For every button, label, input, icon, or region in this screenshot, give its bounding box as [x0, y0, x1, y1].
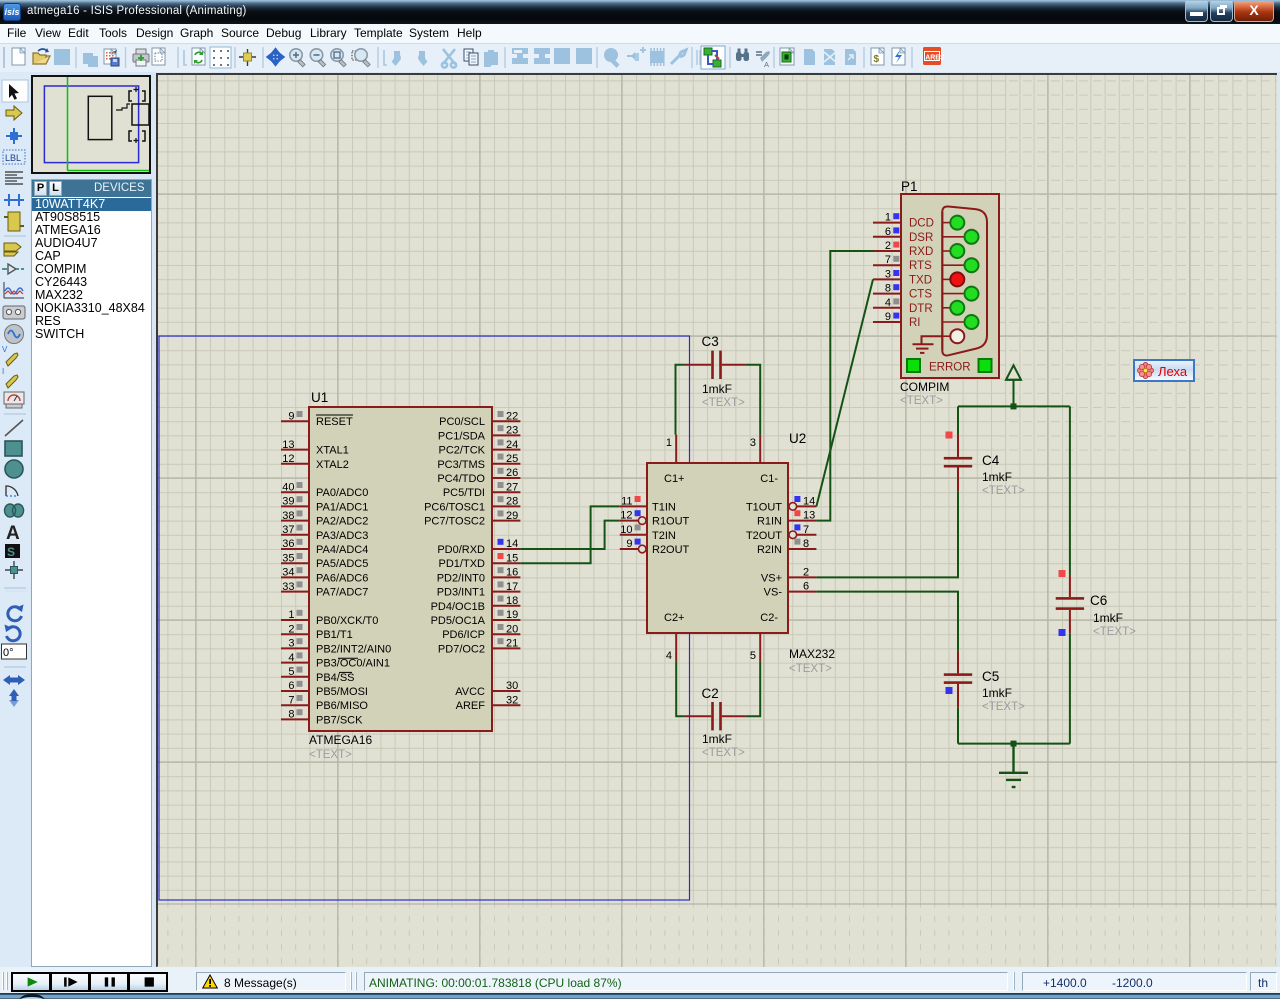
svg-text:PA3/ADC3: PA3/ADC3: [316, 530, 368, 542]
svg-text:7: 7: [288, 694, 294, 706]
capacitor C4: [944, 432, 1025, 498]
wire U1 PD1/TXD to U2 T1IN: [520, 506, 619, 563]
svg-text:RESET: RESET: [316, 416, 353, 428]
pin 13 XTAL1: [281, 449, 309, 451]
svg-text:PD1/TXD: PD1/TXD: [439, 558, 486, 570]
pin 39 PA1/ADC1: [281, 505, 309, 507]
svg-text:13: 13: [803, 510, 815, 522]
svg-text:VS+: VS+: [761, 572, 782, 584]
top rail wire: [958, 405, 1070, 407]
svg-text:25: 25: [506, 453, 518, 465]
svg-text:AREF: AREF: [456, 700, 486, 712]
svg-text:5: 5: [750, 650, 756, 662]
svg-text:7: 7: [885, 254, 891, 266]
wire P1 TXD to U2 T1OUT (diagonal): [816, 279, 873, 506]
svg-text:8: 8: [288, 709, 294, 721]
D-sub connector shape: [942, 206, 987, 355]
svg-text:23: 23: [506, 425, 518, 437]
svg-text:PC5/TDI: PC5/TDI: [443, 487, 485, 499]
svg-text:20: 20: [506, 623, 518, 635]
svg-text:A: A: [764, 60, 769, 69]
svg-text:6: 6: [885, 226, 891, 238]
svg-text:38: 38: [282, 510, 294, 522]
svg-text:TXD: TXD: [909, 274, 932, 286]
LED: [942, 222, 950, 224]
svg-text:8: 8: [885, 283, 891, 295]
LED: [942, 264, 964, 266]
pin 30 AVCC: [492, 690, 520, 692]
wire C5 to bottom rail: [957, 708, 959, 744]
svg-text:10: 10: [620, 524, 632, 536]
wire C2 to U2 pin4: [676, 661, 684, 716]
pin 12 R1OUT: [620, 520, 639, 522]
svg-text:T1IN: T1IN: [652, 501, 676, 513]
toolbar background: [0, 43, 1280, 72]
pin 12 XTAL2: [281, 463, 309, 465]
wire C3 to U2 pin3: [746, 365, 761, 435]
svg-text:PB6/MISO: PB6/MISO: [316, 700, 368, 712]
junction top rail: [1011, 403, 1017, 409]
pin 1 DCD: [873, 222, 901, 224]
title bar: [0, 0, 1280, 24]
pin 4 PB3/OC0/AIN1: [281, 662, 309, 664]
svg-text:PA5/ADC5: PA5/ADC5: [316, 558, 368, 570]
svg-text:7: 7: [803, 524, 809, 536]
pin 1 C1+: [675, 435, 677, 463]
svg-text:PD4/OC1B: PD4/OC1B: [431, 601, 485, 613]
svg-text:C5: C5: [982, 669, 999, 684]
svg-text:9: 9: [885, 311, 891, 323]
pin 9 RI: [873, 321, 901, 323]
pin 9 R2OUT: [620, 548, 639, 550]
LED: [942, 307, 950, 309]
playback button: [128, 972, 168, 992]
internal ground: [913, 336, 943, 353]
svg-text:PD6/ICP: PD6/ICP: [442, 629, 485, 641]
overview minimap: [31, 75, 151, 174]
svg-text:3: 3: [288, 638, 294, 650]
sheet border: [159, 336, 690, 900]
menu bar: [0, 24, 1280, 43]
svg-text:V: V: [2, 345, 8, 354]
pin 36 PA4/ADC4: [281, 548, 309, 550]
svg-text:C4: C4: [982, 453, 1000, 468]
playback button: [89, 972, 129, 992]
svg-text:1: 1: [885, 212, 891, 224]
svg-text:T2OUT: T2OUT: [746, 530, 782, 542]
pin 13 R1IN: [788, 520, 816, 522]
pin 15 PD1/TXD: [492, 562, 520, 564]
svg-text:1mkF: 1mkF: [982, 686, 1012, 700]
pin 37 PA3/ADC3: [281, 534, 309, 536]
svg-text:PD3/INT1: PD3/INT1: [437, 587, 485, 599]
svg-text:PB2/INT2/AIN0: PB2/INT2/AIN0: [316, 643, 391, 655]
pin 29 PC7/TOSC2: [492, 520, 520, 522]
pin 14 T1OUT: [796, 505, 816, 507]
svg-text:1: 1: [288, 609, 294, 621]
svg-text:18: 18: [506, 595, 518, 607]
svg-text:PA2/ADC2: PA2/ADC2: [316, 516, 368, 528]
junction bottom rail: [1011, 741, 1017, 747]
svg-text:DSR: DSR: [909, 232, 933, 244]
svg-text:ERROR: ERROR: [929, 362, 971, 374]
svg-text:26: 26: [506, 467, 518, 479]
ERROR indicator: [907, 359, 920, 372]
coordinates panel: [1022, 972, 1247, 991]
pin 23 PC1/SDA: [492, 434, 520, 436]
pin 33 PA7/ADC7: [281, 591, 309, 593]
LED: [942, 236, 964, 238]
svg-text:1mkF: 1mkF: [702, 382, 732, 396]
svg-text:PD5/OC1A: PD5/OC1A: [431, 615, 486, 627]
message panel: [196, 972, 346, 991]
svg-text:14: 14: [506, 538, 518, 550]
svg-text:PC6/TOSC1: PC6/TOSC1: [424, 501, 485, 513]
LED: [942, 321, 964, 323]
playback button: [11, 972, 51, 992]
devices panel: [31, 179, 152, 967]
svg-text:CTS: CTS: [909, 289, 932, 301]
svg-text:22: 22: [506, 410, 518, 422]
svg-text:28: 28: [506, 496, 518, 508]
svg-text:2: 2: [803, 566, 809, 578]
svg-text:0°: 0°: [3, 647, 14, 659]
svg-text:<TEXT>: <TEXT>: [789, 663, 832, 675]
left tool palette: [0, 72, 30, 967]
pin 2 PB1/T1: [281, 633, 309, 635]
wire U1 PD0/RXD to U2 R1OUT: [520, 521, 619, 549]
connector P1 COMPIM: [873, 179, 999, 407]
svg-text:C1+: C1+: [664, 473, 685, 485]
svg-text:I: I: [2, 367, 4, 376]
svg-text:S: S: [7, 545, 15, 559]
svg-text:C2: C2: [702, 686, 719, 701]
LED: [942, 335, 950, 337]
svg-text:34: 34: [282, 567, 294, 579]
svg-text:5: 5: [288, 666, 294, 678]
pin 14 PD0/RXD: [492, 548, 520, 550]
svg-text:RTS: RTS: [909, 260, 932, 272]
svg-text:PD2/INT0: PD2/INT0: [437, 572, 485, 584]
pin 8 R2IN: [788, 548, 816, 550]
ground terminal: [999, 744, 1028, 787]
pin 28 PC6/TOSC1: [492, 505, 520, 507]
pin 7 RTS: [873, 264, 901, 266]
svg-text:AVCC: AVCC: [455, 686, 485, 698]
bottom rail wire: [958, 743, 1070, 745]
pin 25 PC3/TMS: [492, 463, 520, 465]
svg-text:24: 24: [506, 439, 518, 451]
svg-text:PD7/OC2: PD7/OC2: [438, 643, 485, 655]
wire right riser through C6: [1069, 406, 1071, 743]
svg-text:T2IN: T2IN: [652, 530, 676, 542]
svg-text:P1: P1: [901, 179, 918, 194]
svg-text:$: $: [874, 54, 880, 65]
svg-text:C3: C3: [702, 334, 719, 349]
svg-text:12: 12: [620, 510, 632, 522]
LED: [942, 278, 950, 280]
svg-text:<TEXT>: <TEXT>: [900, 395, 943, 407]
pin 4 DTR: [873, 307, 901, 309]
wire U2 VS+ to C4: [816, 491, 958, 577]
pin 20 PD6/ICP: [492, 633, 520, 635]
svg-text:1mkF: 1mkF: [702, 732, 732, 746]
svg-text:3: 3: [885, 268, 891, 280]
pin 3 PB2/INT2/AIN0: [281, 647, 309, 649]
svg-text:<TEXT>: <TEXT>: [702, 747, 745, 759]
bottom window edge: [0, 993, 1280, 999]
status bar: [0, 967, 1280, 993]
svg-text:PC7/TOSC2: PC7/TOSC2: [424, 516, 485, 528]
svg-text:9: 9: [288, 410, 294, 422]
svg-text:<TEXT>: <TEXT>: [702, 397, 745, 409]
capacitor C5: [944, 651, 1025, 713]
svg-text:C1-: C1-: [760, 473, 778, 485]
svg-text:RXD: RXD: [909, 246, 933, 258]
svg-text:<TEXT>: <TEXT>: [982, 485, 1025, 497]
pin 35 PA5/ADC5: [281, 562, 309, 564]
svg-text:6: 6: [288, 680, 294, 692]
wire C2 to U2 pin5: [746, 661, 761, 716]
svg-text:ARES: ARES: [925, 55, 945, 62]
svg-text:40: 40: [282, 481, 294, 493]
svg-text:3: 3: [750, 437, 756, 449]
svg-text:<TEXT>: <TEXT>: [1093, 626, 1136, 638]
LED: [942, 250, 950, 252]
pin 6 VS-: [788, 591, 816, 593]
wire U2 VS- to C5: [816, 592, 958, 651]
capacitor C3: [685, 334, 746, 409]
svg-text:<TEXT>: <TEXT>: [309, 749, 352, 761]
svg-text:R1IN: R1IN: [757, 516, 782, 528]
pin 5 C2-: [759, 633, 761, 661]
pin 27 PC5/TDI: [492, 491, 520, 493]
user tag: [1133, 359, 1195, 382]
svg-text:XTAL2: XTAL2: [316, 459, 349, 471]
svg-text:4: 4: [666, 650, 672, 662]
svg-text:13: 13: [282, 439, 294, 451]
wire C3 to U2 pin1: [676, 365, 685, 435]
wire P1 RXD to U2 R1IN: [816, 251, 873, 521]
svg-text:8: 8: [803, 538, 809, 550]
svg-text:PC3/TMS: PC3/TMS: [437, 459, 485, 471]
svg-text:PB7/SCK: PB7/SCK: [316, 714, 363, 726]
capacitor C6: [1056, 570, 1136, 638]
svg-text:27: 27: [506, 481, 518, 493]
svg-text:XTAL1: XTAL1: [316, 445, 349, 457]
svg-text:R1OUT: R1OUT: [652, 516, 690, 528]
svg-text:9: 9: [626, 538, 632, 550]
svg-text:36: 36: [282, 538, 294, 550]
pin 24 PC2/TCK: [492, 449, 520, 451]
pin 6 PB5/MOSI: [281, 690, 309, 692]
svg-text:1mkF: 1mkF: [1093, 611, 1123, 625]
animating panel: [364, 972, 1008, 991]
svg-text:PA4/ADC4: PA4/ADC4: [316, 544, 368, 556]
svg-text:PB1/T1: PB1/T1: [316, 629, 353, 641]
svg-text:16: 16: [506, 567, 518, 579]
svg-text:U2: U2: [789, 431, 806, 446]
svg-text:15: 15: [506, 552, 518, 564]
pin 11 T1IN: [620, 505, 647, 507]
pin 8 PB7/SCK: [281, 718, 309, 720]
svg-text:1: 1: [666, 437, 672, 449]
pin 16 PD2/INT0: [492, 576, 520, 578]
pin 7 T2OUT: [796, 534, 816, 536]
svg-text:PC1/SDA: PC1/SDA: [438, 430, 486, 442]
pin 3 TXD: [873, 278, 901, 280]
svg-text:PC2/TCK: PC2/TCK: [439, 445, 486, 457]
pin 38 PA2/ADC2: [281, 520, 309, 522]
svg-text:MAX232: MAX232: [789, 647, 835, 661]
pin 8 CTS: [873, 293, 901, 295]
svg-text:39: 39: [282, 496, 294, 508]
svg-text:T1OUT: T1OUT: [746, 501, 782, 513]
pin 19 PD5/OC1A: [492, 619, 520, 621]
svg-text:PB3/OC0/AIN1: PB3/OC0/AIN1: [316, 658, 390, 670]
svg-text:2: 2: [288, 623, 294, 635]
svg-text:DCD: DCD: [909, 218, 934, 230]
svg-text:PA1/ADC1: PA1/ADC1: [316, 501, 368, 513]
svg-text:PC4/TDO: PC4/TDO: [437, 473, 485, 485]
svg-text:11: 11: [621, 495, 632, 507]
pin 4 C2+: [675, 633, 677, 661]
svg-text:PD0/RXD: PD0/RXD: [437, 544, 485, 556]
svg-text:ATMEGA16: ATMEGA16: [309, 733, 372, 747]
pin 22 PC0/SCL: [492, 420, 520, 422]
pin 5 PB4/SS: [281, 676, 309, 678]
svg-text:1mkF: 1mkF: [982, 470, 1012, 484]
svg-text:C6: C6: [1090, 593, 1107, 608]
window minimize button: [1185, 1, 1208, 22]
svg-text:17: 17: [506, 581, 518, 593]
pin 32 AREF: [492, 704, 520, 706]
svg-text:R2OUT: R2OUT: [652, 544, 690, 556]
svg-text:2: 2: [885, 240, 891, 252]
svg-text:PB0/XCK/T0: PB0/XCK/T0: [316, 615, 378, 627]
svg-text:PC0/SCL: PC0/SCL: [439, 416, 485, 428]
power terminal: [1006, 365, 1022, 406]
svg-text:12: 12: [282, 453, 294, 465]
svg-text:LBL: LBL: [5, 153, 21, 163]
capacitor C2: [685, 686, 746, 759]
svg-text:PA0/ADC0: PA0/ADC0: [316, 487, 368, 499]
svg-text:PB4/SS: PB4/SS: [316, 672, 355, 684]
pin 1 PB0/XCK/T0: [281, 619, 309, 621]
svg-text:30: 30: [506, 680, 518, 692]
pin 10 T2IN: [620, 534, 647, 536]
playback button: [50, 972, 90, 992]
svg-text:19: 19: [506, 609, 518, 621]
pin 6 DSR: [873, 236, 901, 238]
pin 26 PC4/TDO: [492, 477, 520, 479]
svg-text:4: 4: [885, 297, 891, 309]
pin 2 RXD: [873, 250, 901, 252]
pin 2 VS+: [788, 576, 816, 578]
pin 18 PD4/OC1B: [492, 605, 520, 607]
svg-text:COMPIM: COMPIM: [900, 380, 949, 394]
svg-text:32: 32: [506, 694, 518, 706]
svg-text:PA6/ADC6: PA6/ADC6: [316, 572, 368, 584]
svg-text:U1: U1: [311, 390, 328, 405]
svg-text:PA7/ADC7: PA7/ADC7: [316, 587, 368, 599]
svg-text:VS-: VS-: [764, 587, 783, 599]
svg-text:33: 33: [282, 581, 294, 593]
window maximize button: [1210, 1, 1233, 22]
IC U1 ATMEGA16: [281, 390, 520, 761]
svg-text:R2IN: R2IN: [757, 544, 782, 556]
svg-text:A: A: [6, 523, 20, 544]
pin 7 PB6/MISO: [281, 704, 309, 706]
LED: [942, 293, 964, 295]
svg-text:37: 37: [282, 524, 294, 536]
svg-text:PB5/MOSI: PB5/MOSI: [316, 686, 368, 698]
svg-text:14: 14: [803, 495, 815, 507]
svg-text:C2-: C2-: [760, 612, 778, 624]
wire C4 to top rail: [957, 406, 959, 434]
pin 3 C1-: [759, 435, 761, 463]
IC U2 MAX232: [620, 431, 836, 675]
window close button: [1234, 1, 1274, 22]
svg-text:DTR: DTR: [909, 303, 933, 315]
pin 34 PA6/ADC6: [281, 576, 309, 578]
pin 21 PD7/OC2: [492, 647, 520, 649]
pin 40 PA0/ADC0: [281, 491, 309, 493]
schematic edit window: [156, 73, 1277, 967]
pin 9 RESET: [281, 420, 309, 422]
svg-text:4: 4: [288, 652, 294, 664]
pin 17 PD3/INT1: [492, 591, 520, 593]
svg-text:21: 21: [506, 638, 518, 650]
svg-text:29: 29: [506, 510, 518, 522]
svg-text:RI: RI: [909, 317, 921, 329]
svg-text:35: 35: [282, 552, 294, 564]
svg-text:C2+: C2+: [664, 612, 685, 624]
svg-text:6: 6: [803, 581, 809, 593]
svg-text:<TEXT>: <TEXT>: [982, 701, 1025, 713]
